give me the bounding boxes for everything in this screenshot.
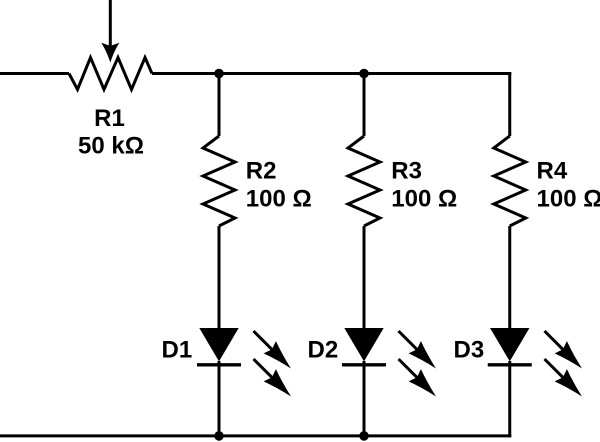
wire: R3 to D2 [363,226,366,329]
wire: node A down to R2 [218,74,221,137]
resistor R2 (zigzag) [203,136,235,226]
wire: R4 to D3 [508,226,511,329]
wire: top-right corner down to R4 [508,72,511,136]
svg-text:100 Ω: 100 Ω [246,185,312,212]
wire: node B to top-right corner [364,72,511,75]
LED D2 cathode bar [342,363,386,366]
node B junction dot [359,69,369,79]
LED D3 anode triangle [490,328,529,361]
wire: left feed into R1 [0,72,69,75]
svg-text:D2: D2 [308,337,339,364]
wire: R1 to node A [152,72,219,75]
wire: D3 to bottom rail [508,361,511,437]
LED D1 cathode bar [197,363,241,366]
svg-text:R3: R3 [391,157,422,184]
wire: R2 to D1 [218,226,221,329]
wire: node A to node B [219,72,364,75]
resistor R3 (zigzag) [348,136,380,226]
wire: D1 to bottom rail [218,361,221,436]
LED D1 anode triangle [199,328,238,361]
svg-text:R1: R1 [94,105,125,132]
bottom rail junction dot under D2 [359,431,369,441]
LED D1 light arrow 1 [247,325,297,375]
wire: bottom rail [0,434,511,437]
bottom rail junction dot under D1 [214,431,224,441]
wire: node B down to R3 [363,74,366,137]
svg-text:100 Ω: 100 Ω [391,185,457,212]
potentiometer R1 body (zigzag) [69,58,152,90]
potentiometer R1 wiper arrow [101,0,119,63]
wire: D2 to bottom rail [363,361,366,436]
node A junction dot [214,69,224,79]
svg-text:D3: D3 [454,337,485,364]
LED D2 light arrow 2 [392,353,442,403]
svg-text:R2: R2 [246,157,277,184]
svg-text:50 kΩ: 50 kΩ [78,132,144,159]
LED D3 cathode bar [488,363,532,366]
LED D3 light arrow 2 [538,353,588,403]
svg-text:D1: D1 [162,337,193,364]
svg-text:R4: R4 [537,157,568,184]
svg-text:100 Ω: 100 Ω [537,185,600,212]
resistor R4 (zigzag) [494,136,526,226]
LED D1 light arrow 2 [247,353,297,403]
LED D2 anode triangle [344,328,383,361]
LED D2 light arrow 1 [392,325,442,375]
LED D3 light arrow 1 [538,325,588,375]
